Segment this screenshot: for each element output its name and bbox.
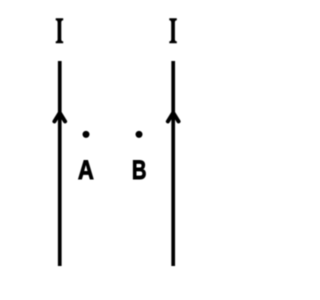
svg-text:A: A [78, 156, 94, 186]
point B dot [136, 131, 143, 138]
svg-text:B: B [132, 155, 147, 186]
wire 2 (right conductor) [171, 61, 175, 266]
point A dot [83, 131, 90, 138]
current label I (left wire) [56, 18, 64, 43]
current label I (right wire) [169, 18, 177, 43]
arrowhead on wire 1 (current direction up) [54, 113, 65, 122]
arrowhead on wire 2 (current direction up) [168, 113, 179, 122]
wire 1 (left conductor) [58, 61, 62, 266]
